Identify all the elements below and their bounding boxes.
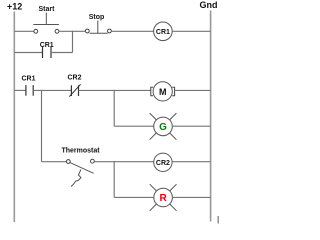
left power rail [13, 12, 15, 223]
wire rung3 left [42, 161, 67, 163]
contact CR1 (rung2) [21, 76, 35, 96]
svg-text:Gnd: Gnd [200, 0, 218, 10]
wire rung1 middle [59, 30, 86, 32]
cursor tick bottom right [217, 216, 219, 224]
wire rung2 middle [33, 89, 71, 91]
wire parallel branch riser [72, 31, 74, 53]
contact CR2 (NC) [67, 75, 81, 97]
relay coil CR2 [154, 153, 172, 171]
wire R branch horizontal [114, 196, 154, 198]
wire rung3 right [94, 161, 153, 163]
wire rung2 right [79, 89, 151, 91]
pushbutton Start (NO) [33, 6, 59, 33]
svg-text:CR1: CR1 [21, 76, 35, 83]
relay coil CR1 [154, 22, 173, 41]
svg-text:CR2: CR2 [67, 75, 81, 82]
svg-text:Thermostat: Thermostat [61, 148, 100, 155]
node +12 [7, 1, 22, 11]
wire G branch horizontal [114, 125, 154, 127]
wire rung1 right [111, 30, 153, 32]
wire rung1 left [14, 30, 34, 32]
contact CR1 (seal-in) [40, 42, 54, 58]
lamp G (green) [150, 113, 177, 140]
node Gnd [200, 0, 218, 10]
pushbutton Stop (NC) [85, 14, 111, 33]
wire parallel branch bottom right [51, 52, 73, 54]
wire rung2 left [14, 89, 26, 91]
wire R branch riser [113, 161, 115, 197]
wire parallel branch bottom left [14, 52, 42, 54]
motor M [151, 82, 175, 101]
svg-text:+12: +12 [7, 1, 22, 11]
svg-text:CR1: CR1 [156, 29, 170, 36]
svg-text:CR2: CR2 [156, 160, 170, 167]
svg-text:Stop: Stop [89, 14, 105, 21]
wire thermostat branch riser [41, 90, 43, 162]
wire R lamp to rail [172, 196, 210, 198]
lamp R (red) [150, 184, 177, 211]
wire rung1 to rail [172, 30, 210, 32]
wire rung2 to rail [175, 89, 211, 91]
svg-text:Start: Start [39, 6, 56, 13]
svg-text:G: G [159, 122, 167, 133]
wire G lamp to rail [172, 125, 210, 127]
svg-text:M: M [159, 87, 167, 97]
svg-text:CR1: CR1 [40, 42, 54, 49]
switch Thermostat [61, 148, 100, 187]
right ground rail [210, 11, 212, 222]
wire G branch riser [113, 90, 115, 126]
wire rung3 to rail [172, 161, 211, 163]
svg-text:R: R [159, 193, 167, 204]
